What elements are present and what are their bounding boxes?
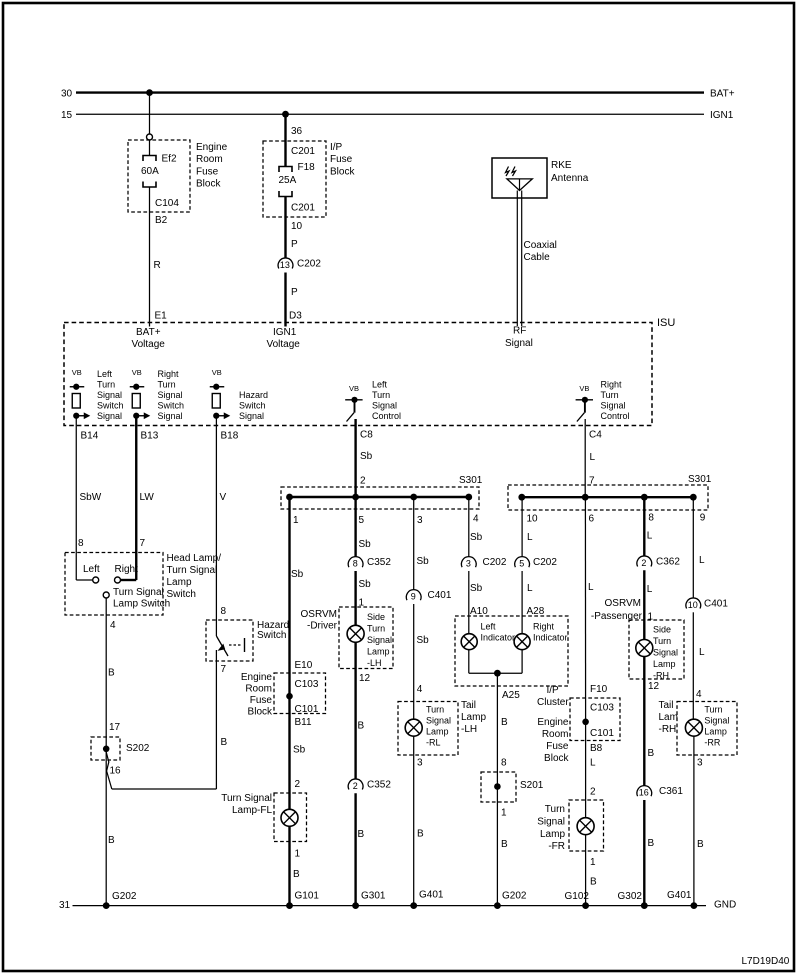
svg-text:C361: C361 bbox=[659, 786, 683, 797]
svg-text:A28: A28 bbox=[527, 606, 545, 617]
svg-text:Lamp: Lamp bbox=[653, 659, 676, 669]
svg-text:L7D19D40: L7D19D40 bbox=[742, 956, 790, 967]
svg-text:Engine: Engine bbox=[537, 717, 569, 728]
svg-text:I/P: I/P bbox=[547, 685, 560, 696]
svg-text:C103: C103 bbox=[295, 679, 319, 690]
svg-text:Signal: Signal bbox=[158, 390, 183, 400]
svg-text:Fuse: Fuse bbox=[196, 166, 219, 177]
svg-text:Turn Signal: Turn Signal bbox=[221, 793, 272, 804]
svg-text:L: L bbox=[590, 758, 596, 769]
svg-text:10: 10 bbox=[527, 514, 539, 525]
svg-text:-Passenger: -Passenger bbox=[591, 611, 643, 622]
svg-text:VB: VB bbox=[579, 384, 589, 393]
svg-text:LW: LW bbox=[140, 492, 155, 503]
svg-text:Sb: Sb bbox=[359, 579, 372, 590]
svg-text:L: L bbox=[647, 531, 653, 542]
svg-text:Control: Control bbox=[372, 411, 401, 421]
svg-text:B: B bbox=[108, 835, 115, 846]
svg-text:3: 3 bbox=[466, 559, 471, 569]
svg-text:3: 3 bbox=[697, 758, 703, 769]
svg-text:VB: VB bbox=[212, 368, 222, 377]
svg-text:Left: Left bbox=[83, 564, 100, 575]
svg-text:-Driver: -Driver bbox=[307, 621, 338, 632]
svg-text:7: 7 bbox=[140, 538, 146, 549]
svg-text:C401: C401 bbox=[428, 590, 452, 601]
svg-text:R: R bbox=[154, 260, 161, 271]
svg-text:Voltage: Voltage bbox=[267, 339, 301, 350]
svg-text:1: 1 bbox=[295, 849, 301, 860]
svg-text:Switch: Switch bbox=[239, 401, 266, 411]
svg-text:B: B bbox=[108, 668, 115, 679]
svg-text:BAT+: BAT+ bbox=[710, 89, 735, 100]
svg-text:9: 9 bbox=[411, 592, 416, 602]
svg-text:Sb: Sb bbox=[417, 635, 430, 646]
svg-text:P: P bbox=[291, 287, 298, 298]
svg-text:S301: S301 bbox=[688, 474, 712, 485]
svg-text:1: 1 bbox=[293, 515, 299, 526]
svg-text:-RH: -RH bbox=[659, 724, 677, 735]
svg-text:D3: D3 bbox=[289, 311, 302, 322]
svg-text:Turn: Turn bbox=[704, 704, 722, 714]
svg-text:ISU: ISU bbox=[657, 317, 675, 329]
svg-text:60A: 60A bbox=[141, 166, 159, 177]
svg-text:L: L bbox=[527, 532, 533, 543]
svg-text:2: 2 bbox=[353, 781, 358, 791]
svg-text:5: 5 bbox=[359, 515, 365, 526]
svg-text:C352: C352 bbox=[367, 780, 391, 791]
svg-text:Turn: Turn bbox=[367, 623, 385, 633]
svg-text:Sb: Sb bbox=[359, 539, 372, 550]
svg-text:A25: A25 bbox=[502, 690, 520, 701]
svg-text:E1: E1 bbox=[155, 311, 168, 322]
svg-text:7: 7 bbox=[221, 664, 227, 675]
svg-text:Right: Right bbox=[533, 622, 555, 632]
svg-text:8: 8 bbox=[648, 513, 654, 524]
svg-text:Signal: Signal bbox=[653, 647, 678, 657]
svg-text:G302: G302 bbox=[618, 891, 643, 902]
svg-text:Turn Signal: Turn Signal bbox=[167, 565, 218, 576]
svg-text:5: 5 bbox=[519, 559, 524, 569]
svg-text:Block: Block bbox=[330, 166, 355, 177]
svg-text:Right: Right bbox=[601, 380, 623, 390]
svg-text:Turn: Turn bbox=[158, 380, 176, 390]
svg-text:4: 4 bbox=[473, 514, 479, 525]
svg-text:Indicator: Indicator bbox=[481, 633, 516, 643]
svg-text:Signal: Signal bbox=[372, 401, 397, 411]
svg-text:B: B bbox=[697, 839, 704, 850]
svg-text:-RH: -RH bbox=[653, 670, 669, 680]
svg-text:Switch: Switch bbox=[158, 401, 185, 411]
svg-text:Signal: Signal bbox=[158, 411, 183, 421]
svg-text:Coaxial: Coaxial bbox=[524, 240, 557, 251]
svg-text:Turn Signal: Turn Signal bbox=[113, 587, 164, 598]
svg-text:P: P bbox=[291, 239, 298, 250]
svg-text:Head Lamp/: Head Lamp/ bbox=[167, 553, 222, 564]
svg-text:8: 8 bbox=[78, 538, 84, 549]
svg-text:Voltage: Voltage bbox=[132, 339, 166, 350]
svg-text:Room: Room bbox=[542, 729, 569, 740]
svg-text:Engine: Engine bbox=[196, 142, 228, 153]
svg-text:16: 16 bbox=[110, 766, 122, 777]
svg-text:Signal: Signal bbox=[367, 635, 392, 645]
svg-text:I/P: I/P bbox=[330, 142, 343, 153]
svg-text:S301: S301 bbox=[459, 475, 483, 486]
svg-text:25A: 25A bbox=[279, 175, 297, 186]
svg-text:6: 6 bbox=[589, 514, 595, 525]
svg-text:RKE: RKE bbox=[551, 160, 572, 171]
svg-text:15: 15 bbox=[61, 110, 73, 121]
svg-text:F18: F18 bbox=[298, 162, 316, 173]
svg-text:Fuse: Fuse bbox=[250, 695, 273, 706]
svg-text:C362: C362 bbox=[656, 557, 680, 568]
svg-text:B18: B18 bbox=[221, 431, 239, 442]
svg-text:Lamp: Lamp bbox=[167, 577, 192, 588]
svg-text:2: 2 bbox=[641, 558, 646, 568]
svg-text:B: B bbox=[358, 721, 365, 732]
svg-text:VB: VB bbox=[349, 384, 359, 393]
svg-text:Lamp: Lamp bbox=[704, 726, 727, 736]
svg-text:Side: Side bbox=[653, 624, 671, 634]
svg-text:7: 7 bbox=[589, 476, 595, 487]
svg-text:G202: G202 bbox=[502, 891, 527, 902]
svg-text:3: 3 bbox=[417, 515, 423, 526]
svg-text:C202: C202 bbox=[483, 557, 507, 568]
svg-text:Lamp: Lamp bbox=[461, 712, 486, 723]
svg-text:OSRVM: OSRVM bbox=[605, 598, 642, 609]
svg-text:B: B bbox=[221, 737, 228, 748]
svg-text:Lamp-FL: Lamp-FL bbox=[232, 805, 272, 816]
svg-text:Sb: Sb bbox=[470, 532, 483, 543]
svg-text:Switch: Switch bbox=[257, 630, 286, 641]
svg-text:Lamp Switch: Lamp Switch bbox=[113, 599, 170, 610]
svg-text:SbW: SbW bbox=[80, 492, 102, 503]
svg-text:L: L bbox=[699, 555, 705, 566]
svg-text:C202: C202 bbox=[297, 259, 321, 270]
svg-text:S201: S201 bbox=[520, 780, 544, 791]
svg-text:OSRVM: OSRVM bbox=[301, 609, 338, 620]
svg-text:A10: A10 bbox=[470, 606, 488, 617]
svg-text:B13: B13 bbox=[141, 431, 159, 442]
svg-text:Engine: Engine bbox=[241, 672, 273, 683]
svg-text:L: L bbox=[647, 584, 653, 595]
svg-text:Left: Left bbox=[97, 369, 113, 379]
svg-text:30: 30 bbox=[61, 89, 73, 100]
svg-text:4: 4 bbox=[696, 689, 702, 700]
svg-text:Fuse: Fuse bbox=[330, 154, 353, 165]
svg-text:G401: G401 bbox=[419, 890, 444, 901]
svg-text:Turn: Turn bbox=[97, 380, 115, 390]
svg-text:Fuse: Fuse bbox=[546, 741, 569, 752]
svg-text:Block: Block bbox=[248, 707, 273, 718]
svg-text:Signal: Signal bbox=[97, 411, 122, 421]
svg-text:S202: S202 bbox=[126, 743, 150, 754]
svg-text:Room: Room bbox=[245, 684, 272, 695]
svg-text:Sb: Sb bbox=[293, 745, 306, 756]
svg-text:8: 8 bbox=[353, 559, 358, 569]
svg-text:Switch: Switch bbox=[167, 589, 196, 600]
svg-text:Lamp: Lamp bbox=[540, 829, 565, 840]
svg-text:4: 4 bbox=[417, 684, 423, 695]
svg-text:Signal: Signal bbox=[239, 411, 264, 421]
svg-text:VB: VB bbox=[72, 368, 82, 377]
svg-text:B11: B11 bbox=[295, 717, 312, 728]
svg-text:G102: G102 bbox=[565, 891, 590, 902]
svg-text:IGN1: IGN1 bbox=[710, 110, 734, 121]
svg-text:IGN1: IGN1 bbox=[273, 327, 297, 338]
svg-text:Switch: Switch bbox=[97, 401, 124, 411]
svg-text:Sb: Sb bbox=[360, 451, 373, 462]
svg-text:4: 4 bbox=[110, 620, 116, 631]
svg-text:Cluster: Cluster bbox=[537, 697, 569, 708]
svg-text:10: 10 bbox=[291, 221, 303, 232]
svg-text:17: 17 bbox=[109, 722, 121, 733]
svg-text:12: 12 bbox=[648, 681, 660, 692]
svg-text:C101: C101 bbox=[590, 728, 614, 739]
svg-text:B: B bbox=[293, 869, 300, 880]
svg-text:36: 36 bbox=[291, 126, 303, 137]
svg-text:G101: G101 bbox=[295, 891, 320, 902]
svg-text:C104: C104 bbox=[155, 198, 179, 209]
svg-text:2: 2 bbox=[360, 476, 366, 487]
svg-text:-LH: -LH bbox=[367, 658, 382, 668]
svg-text:8: 8 bbox=[501, 758, 507, 769]
svg-text:B: B bbox=[417, 829, 424, 840]
svg-text:C103: C103 bbox=[590, 703, 614, 714]
svg-text:L: L bbox=[588, 582, 594, 593]
svg-text:-RL: -RL bbox=[426, 737, 441, 747]
svg-text:2: 2 bbox=[590, 787, 596, 798]
svg-text:C201: C201 bbox=[291, 203, 315, 214]
svg-text:G202: G202 bbox=[112, 891, 137, 902]
svg-text:Lamp: Lamp bbox=[367, 646, 390, 656]
svg-text:Lamp: Lamp bbox=[426, 726, 449, 736]
svg-text:-FR: -FR bbox=[548, 841, 565, 852]
svg-text:B2: B2 bbox=[155, 215, 168, 226]
svg-text:Block: Block bbox=[196, 179, 221, 190]
svg-text:L: L bbox=[527, 583, 533, 594]
svg-text:B: B bbox=[501, 717, 508, 728]
svg-text:G401: G401 bbox=[667, 890, 692, 901]
svg-text:Block: Block bbox=[544, 753, 569, 764]
svg-text:Signal: Signal bbox=[505, 338, 533, 349]
svg-text:Signal: Signal bbox=[426, 715, 451, 725]
svg-text:GND: GND bbox=[714, 900, 736, 911]
svg-text:C202: C202 bbox=[533, 557, 557, 568]
svg-text:3: 3 bbox=[417, 758, 423, 769]
svg-text:Sb: Sb bbox=[291, 569, 304, 580]
svg-text:Cable: Cable bbox=[524, 252, 551, 263]
svg-text:1: 1 bbox=[648, 612, 654, 623]
svg-text:L: L bbox=[699, 647, 705, 658]
svg-text:C401: C401 bbox=[704, 599, 728, 610]
svg-text:Left: Left bbox=[372, 380, 388, 390]
svg-text:Tail: Tail bbox=[659, 700, 674, 711]
svg-text:Signal: Signal bbox=[97, 390, 122, 400]
svg-text:Turn: Turn bbox=[653, 636, 671, 646]
svg-text:B: B bbox=[648, 748, 655, 759]
svg-text:1: 1 bbox=[590, 857, 596, 868]
svg-text:Signal: Signal bbox=[601, 401, 626, 411]
svg-text:G301: G301 bbox=[361, 891, 386, 902]
svg-text:C4: C4 bbox=[589, 430, 602, 441]
svg-text:VB: VB bbox=[132, 368, 142, 377]
svg-text:Tail: Tail bbox=[461, 700, 476, 711]
svg-text:Turn: Turn bbox=[372, 390, 390, 400]
svg-text:31: 31 bbox=[59, 900, 71, 911]
svg-text:16: 16 bbox=[639, 788, 649, 798]
svg-text:Hazard: Hazard bbox=[239, 390, 268, 400]
svg-text:2: 2 bbox=[295, 779, 301, 790]
svg-text:Indicator: Indicator bbox=[533, 633, 568, 643]
svg-text:Ef2: Ef2 bbox=[162, 154, 177, 165]
svg-text:Signal: Signal bbox=[537, 816, 565, 827]
svg-text:B: B bbox=[648, 838, 655, 849]
svg-text:E10: E10 bbox=[295, 660, 313, 671]
svg-text:9: 9 bbox=[700, 513, 706, 524]
svg-text:Antenna: Antenna bbox=[551, 173, 589, 184]
svg-text:Room: Room bbox=[196, 154, 223, 165]
svg-text:F10: F10 bbox=[590, 684, 608, 695]
svg-text:B: B bbox=[501, 839, 508, 850]
svg-text:Turn: Turn bbox=[426, 704, 444, 714]
svg-text:8: 8 bbox=[221, 606, 227, 617]
svg-text:RF: RF bbox=[513, 326, 526, 337]
svg-text:Side: Side bbox=[367, 612, 385, 622]
svg-text:-RR: -RR bbox=[704, 737, 720, 747]
svg-text:C8: C8 bbox=[360, 430, 373, 441]
svg-text:B: B bbox=[590, 877, 597, 888]
svg-text:10: 10 bbox=[688, 600, 698, 610]
svg-text:L: L bbox=[590, 452, 596, 463]
svg-text:B14: B14 bbox=[81, 431, 99, 442]
svg-text:V: V bbox=[220, 492, 227, 503]
svg-text:Control: Control bbox=[601, 411, 630, 421]
svg-text:Lam: Lam bbox=[659, 712, 678, 723]
svg-text:C352: C352 bbox=[367, 557, 391, 568]
svg-text:B: B bbox=[358, 829, 365, 840]
svg-text:Right: Right bbox=[158, 369, 180, 379]
svg-text:C201: C201 bbox=[291, 146, 315, 157]
svg-text:-LH: -LH bbox=[461, 724, 477, 735]
svg-text:Sb: Sb bbox=[417, 556, 430, 567]
svg-text:Sb: Sb bbox=[470, 583, 483, 594]
svg-text:BAT+: BAT+ bbox=[136, 327, 161, 338]
svg-text:12: 12 bbox=[359, 673, 371, 684]
svg-text:Right: Right bbox=[115, 564, 139, 575]
svg-text:13: 13 bbox=[280, 260, 290, 270]
svg-text:C101: C101 bbox=[295, 704, 319, 715]
svg-text:Turn: Turn bbox=[601, 390, 619, 400]
svg-text:Turn: Turn bbox=[545, 804, 565, 815]
svg-text:Signal: Signal bbox=[704, 715, 729, 725]
svg-text:1: 1 bbox=[501, 808, 507, 819]
svg-text:Left: Left bbox=[481, 622, 497, 632]
svg-text:B8: B8 bbox=[590, 743, 603, 754]
